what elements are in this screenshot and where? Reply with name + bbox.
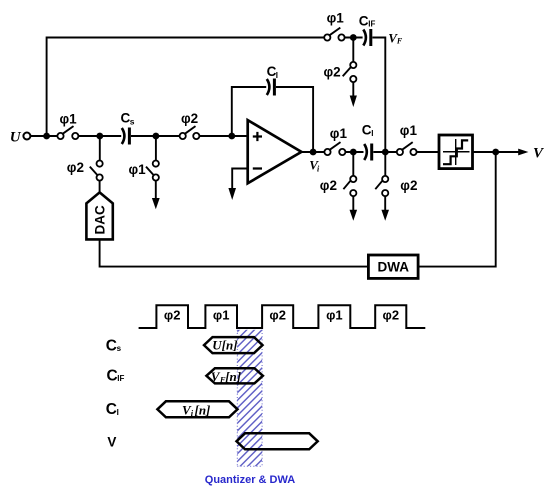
DAC block bbox=[86, 192, 112, 239]
ground arrow under node F switch bbox=[384, 196, 386, 211]
node B junction bbox=[96, 133, 103, 140]
svg-text:φ1: φ1 bbox=[129, 162, 147, 177]
ground arrow under node E switch bbox=[352, 196, 354, 211]
wire switch to quantizer bbox=[417, 151, 439, 153]
clock waveform phi2/phi1 bbox=[139, 305, 426, 328]
svg-text:C: C bbox=[106, 401, 117, 418]
svg-text:φ1: φ1 bbox=[213, 307, 230, 322]
wire op-amp minus input to ground arrow bbox=[232, 169, 248, 190]
node U input terminal bbox=[23, 133, 30, 140]
switch phi1 (row2 after Vi) bbox=[324, 149, 330, 155]
svg-text:φ2: φ2 bbox=[67, 160, 84, 175]
svg-text:I: I bbox=[276, 71, 278, 80]
node TF junction (top of CIF) bbox=[350, 34, 357, 41]
svg-text:φ1: φ1 bbox=[326, 307, 343, 322]
wire op-amp output to node Vi bbox=[301, 151, 324, 153]
wire switch to DAC bbox=[99, 181, 101, 193]
svg-text:[n]: [n] bbox=[225, 369, 241, 384]
svg-text:C: C bbox=[106, 337, 117, 354]
quantizer U2 bbox=[439, 135, 473, 169]
node G junction (output) bbox=[492, 149, 499, 156]
wire CIF to VF line down to node F bbox=[372, 38, 385, 153]
node F junction bbox=[382, 149, 389, 156]
capacitor CIF bbox=[363, 30, 366, 46]
svg-text:φ1: φ1 bbox=[400, 123, 418, 138]
wire U terminal to node A bbox=[31, 135, 58, 137]
wire node G down to DWA bbox=[418, 152, 496, 267]
wire top feedback from node A to phi1 switch bbox=[47, 38, 325, 137]
tag hexagon VF[n] fill bbox=[206, 368, 263, 383]
output arrowhead V bbox=[518, 149, 528, 156]
tag hexagon V fill bbox=[237, 433, 318, 449]
switch phi2 (hanging, to DAC) bbox=[99, 136, 101, 160]
hatch band Quantizer & DWA bbox=[237, 330, 262, 466]
svg-text:[n]: [n] bbox=[195, 403, 211, 418]
svg-text:φ2: φ2 bbox=[320, 178, 337, 193]
svg-text:φ1: φ1 bbox=[327, 10, 345, 25]
svg-text:s: s bbox=[130, 116, 135, 126]
tag hexagon Vi[n] fill bbox=[157, 401, 237, 417]
wire Cs to node C bbox=[131, 135, 153, 137]
svg-text:s: s bbox=[117, 344, 122, 353]
wire DAC to bottom feedback line to DWA bbox=[100, 239, 369, 266]
ground arrow under node C switch bbox=[155, 181, 157, 200]
switch phi1 (top, before CIF) bbox=[324, 34, 330, 40]
wire switch to node D bbox=[159, 135, 180, 137]
svg-text:U[n]: U[n] bbox=[212, 338, 237, 353]
wire switch to node B bbox=[79, 135, 99, 137]
tag hexagon VF[n] outline bbox=[206, 368, 263, 383]
svg-text:φ1: φ1 bbox=[330, 126, 348, 141]
svg-text:U: U bbox=[10, 130, 22, 146]
svg-text:φ2: φ2 bbox=[269, 307, 286, 322]
capacitor CI (feedback) bbox=[267, 79, 270, 95]
svg-text:DAC: DAC bbox=[92, 205, 107, 234]
svg-text:φ2: φ2 bbox=[400, 178, 417, 193]
svg-text:φ2: φ2 bbox=[324, 64, 341, 79]
switch phi1 (row1 input) bbox=[57, 133, 63, 139]
wire CI feedback loop bbox=[232, 87, 266, 136]
svg-text:φ2: φ2 bbox=[164, 307, 181, 322]
wire CI to node F bbox=[373, 151, 397, 153]
svg-text:IF: IF bbox=[368, 20, 375, 29]
svg-text:F: F bbox=[396, 36, 403, 45]
node C junction bbox=[153, 133, 160, 140]
node A junction bbox=[43, 133, 50, 140]
wire switch to node TF bbox=[345, 37, 363, 39]
capacitor CI (row2) bbox=[364, 144, 367, 160]
tag hexagon Vi[n] outline bbox=[157, 401, 237, 417]
svg-text:φ2: φ2 bbox=[383, 307, 400, 322]
svg-text:V: V bbox=[107, 435, 116, 450]
svg-text:DWA: DWA bbox=[378, 260, 410, 275]
wire switch to node E bbox=[346, 151, 364, 153]
switch phi1 (row2 before quantizer) bbox=[397, 149, 403, 155]
op-amp U1 bbox=[248, 120, 302, 183]
svg-text:C: C bbox=[359, 13, 369, 28]
ground arrow under top phi2 switch bbox=[352, 82, 354, 97]
node Vi junction bbox=[310, 149, 317, 156]
switch phi2 (row1, before op-amp) bbox=[180, 133, 186, 139]
switch phi2 (hanging under node TF) bbox=[352, 38, 354, 62]
wire CI to op-amp output node bbox=[276, 87, 313, 149]
capacitor Cs bbox=[103, 135, 121, 137]
wire quantizer to output arrow V bbox=[473, 151, 520, 153]
switch phi2 (hanging under node E) bbox=[352, 152, 354, 176]
node E junction bbox=[350, 149, 357, 156]
svg-text:Quantizer & DWA: Quantizer & DWA bbox=[205, 474, 296, 486]
svg-text:IF: IF bbox=[117, 374, 124, 383]
svg-text:I: I bbox=[117, 408, 119, 417]
tag hexagon U[n] fill bbox=[204, 337, 263, 353]
svg-text:φ2: φ2 bbox=[181, 111, 198, 126]
svg-text:φ1: φ1 bbox=[60, 112, 78, 127]
switch phi2 (hanging under node F) bbox=[384, 152, 386, 176]
svg-text:C: C bbox=[362, 123, 372, 138]
node D junction (op-amp + input) bbox=[228, 133, 235, 140]
svg-text:I: I bbox=[371, 129, 373, 138]
tag hexagon U[n] outline bbox=[204, 337, 263, 353]
svg-text:C: C bbox=[107, 367, 118, 384]
DWA block bbox=[368, 255, 418, 278]
tag hexagon V outline bbox=[237, 433, 318, 449]
switch phi1 (hanging under node C) bbox=[155, 136, 157, 160]
